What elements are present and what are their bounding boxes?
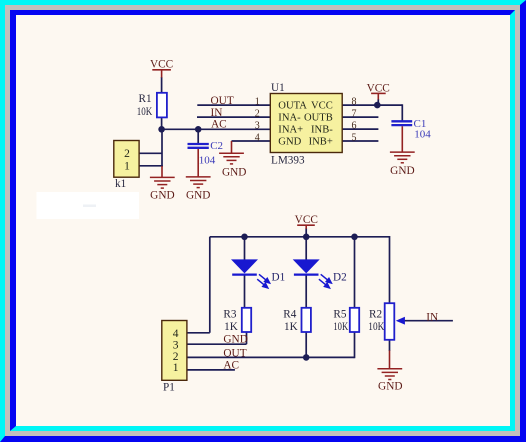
svg-text:OUT: OUT xyxy=(223,348,246,360)
svg-text:10K: 10K xyxy=(368,321,384,333)
svg-text:INB-: INB- xyxy=(311,124,333,135)
svg-text:GND: GND xyxy=(150,189,174,201)
svg-text:1K: 1K xyxy=(284,321,298,333)
svg-text:10K: 10K xyxy=(333,321,348,333)
svg-text:104: 104 xyxy=(199,155,216,167)
svg-text:3: 3 xyxy=(173,339,179,351)
svg-text:GND: GND xyxy=(390,165,414,177)
svg-text:2: 2 xyxy=(124,148,130,160)
svg-text:104: 104 xyxy=(414,128,431,140)
svg-text:D1: D1 xyxy=(272,272,286,284)
svg-text:4: 4 xyxy=(255,132,260,143)
svg-text:C2: C2 xyxy=(210,140,223,152)
svg-text:R1: R1 xyxy=(139,93,152,105)
svg-text:P1: P1 xyxy=(163,381,175,393)
svg-text:2: 2 xyxy=(173,351,179,363)
svg-text:1K: 1K xyxy=(224,321,238,333)
svg-text:R3: R3 xyxy=(223,308,236,320)
svg-text:R5: R5 xyxy=(333,308,346,320)
svg-text:VCC: VCC xyxy=(150,58,173,70)
svg-text:LM393: LM393 xyxy=(271,155,305,167)
svg-text:AC: AC xyxy=(223,360,239,372)
svg-text:GND: GND xyxy=(186,189,210,201)
svg-text:4: 4 xyxy=(173,328,179,340)
svg-text:GND: GND xyxy=(378,380,402,392)
svg-text:U1: U1 xyxy=(271,82,285,94)
svg-text:D2: D2 xyxy=(333,272,347,284)
svg-text:10K: 10K xyxy=(137,106,153,118)
svg-text:3: 3 xyxy=(255,120,260,131)
svg-text:2: 2 xyxy=(255,108,260,119)
svg-text:R2: R2 xyxy=(369,308,382,320)
svg-text:GND: GND xyxy=(223,333,247,345)
svg-text:R4: R4 xyxy=(283,308,296,320)
svg-text:VCC: VCC xyxy=(367,83,390,95)
svg-text:OUTB: OUTB xyxy=(304,112,333,123)
svg-text:1: 1 xyxy=(255,96,260,107)
svg-text:IN: IN xyxy=(211,107,223,119)
svg-text:1: 1 xyxy=(124,160,130,172)
svg-text:VCC: VCC xyxy=(295,214,318,226)
svg-text:GND: GND xyxy=(278,136,301,147)
svg-text:OUTA: OUTA xyxy=(278,100,307,111)
svg-text:IN: IN xyxy=(426,311,438,323)
svg-text:8: 8 xyxy=(352,96,357,107)
svg-text:VCC: VCC xyxy=(311,100,333,111)
svg-text:k1: k1 xyxy=(115,178,126,190)
svg-text:6: 6 xyxy=(352,120,357,131)
svg-text:1: 1 xyxy=(173,362,179,374)
svg-text:INB+: INB+ xyxy=(309,136,333,147)
svg-text:5: 5 xyxy=(352,132,357,143)
svg-text:GND: GND xyxy=(222,167,246,179)
svg-text:OUT: OUT xyxy=(211,95,234,107)
svg-text:INA-: INA- xyxy=(278,112,301,123)
svg-text:7: 7 xyxy=(352,108,357,119)
svg-text:AC: AC xyxy=(211,119,227,131)
svg-text:INA+: INA+ xyxy=(278,124,303,135)
